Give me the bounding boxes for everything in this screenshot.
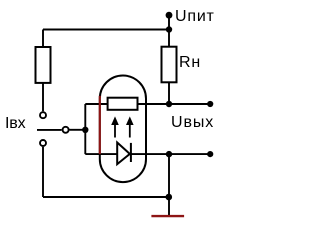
terminal input upper (open circle): [40, 112, 46, 118]
label Ivx: [5, 116, 26, 132]
node junction Uvyh: [166, 101, 172, 107]
label Rn: [179, 55, 201, 71]
wire Rn bottom to Uvyh node: [168, 82, 170, 104]
terminal output upper (dot): [207, 101, 213, 107]
LED D1 triangle: [117, 143, 130, 165]
terminal Ivx (open circle): [63, 127, 69, 133]
wire LED cathode to output row: [131, 153, 210, 155]
light arrow left: [111, 116, 119, 137]
resistor R1 (input resistor): [36, 47, 51, 83]
optocoupler U1 body (stadium): [100, 76, 146, 183]
wire red net vertical (left side of optocoupler): [99, 96, 101, 154]
wire to photoresistor left lead: [85, 103, 107, 105]
label Uvyh: [171, 115, 214, 131]
light arrow right: [126, 116, 134, 137]
ground bar: [151, 215, 184, 217]
wire LED anode horizontal: [85, 153, 117, 155]
wire Ivx terminal to node: [70, 129, 86, 131]
label Upit: [175, 9, 215, 25]
wire photoresistor right to output terminal: [138, 103, 211, 105]
wire left vertical of optocoupler loop: [84, 104, 86, 154]
node junction top wire: [166, 26, 172, 32]
wire resistor R1 to input terminal: [42, 83, 44, 111]
wire Ivx lead: [37, 129, 62, 131]
LED D1 cathode bar: [130, 143, 132, 162]
photoresistor body: [108, 98, 138, 110]
terminal input lower (open circle): [40, 140, 46, 146]
node junction input: [82, 127, 88, 133]
wire left vertical upper: [42, 30, 44, 48]
wire top horizontal: [43, 29, 169, 31]
wire lower terminal down: [42, 147, 44, 197]
node junction bottom wire: [166, 194, 173, 201]
wire Upit terminal down: [168, 15, 170, 47]
terminal Upit (dot): [166, 12, 173, 19]
node junction LED row: [166, 151, 172, 157]
wire LED row down to ground: [168, 154, 170, 215]
terminal output lower (dot): [207, 151, 213, 157]
resistor Rn: [162, 47, 177, 83]
wire bottom horizontal: [43, 196, 169, 198]
